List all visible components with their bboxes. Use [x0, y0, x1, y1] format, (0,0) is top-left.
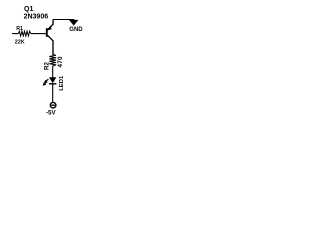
svg-text:GND: GND [69, 27, 83, 33]
svg-text:-5V: -5V [46, 109, 57, 116]
diode triangle [49, 77, 56, 83]
LED LED1 [43, 77, 57, 85]
wire base lead left [12, 33, 18, 35]
collector lead [48, 35, 54, 55]
wire collector resistor to LED [52, 66, 54, 78]
svg-text:LED1: LED1 [59, 75, 65, 91]
led arrow 1 [46, 79, 49, 82]
resistor R2 [49, 54, 56, 66]
wire LED to supply [52, 84, 54, 102]
resistor R1 [18, 31, 30, 36]
wire base lead right [31, 33, 46, 35]
base bar [46, 28, 48, 37]
led arrow 2 [44, 82, 47, 85]
wire emitter to ground [53, 20, 74, 22]
cathode bar [49, 83, 56, 85]
transistor Q1 [47, 20, 53, 56]
svg-text:R2: R2 [43, 62, 50, 70]
svg-text:Q1: Q1 [24, 6, 33, 13]
power -5V [50, 102, 56, 108]
emitter arrow [47, 26, 51, 31]
ground [70, 20, 77, 24]
svg-text:470: 470 [57, 56, 64, 68]
emitter lead [48, 20, 54, 30]
svg-text:R1: R1 [16, 26, 23, 32]
svg-text:2N3906: 2N3906 [24, 14, 49, 21]
svg-text:22K: 22K [15, 40, 25, 46]
